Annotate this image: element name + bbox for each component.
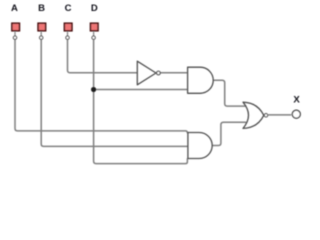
input B stub	[40, 32, 42, 36]
input A pin circle	[13, 36, 16, 39]
svg-text:D: D	[91, 3, 98, 14]
input A switch square	[12, 23, 20, 31]
wire C (input C down and right to NOT gate input)	[68, 40, 138, 73]
input D stub	[93, 32, 95, 36]
svg-text:X: X	[293, 95, 300, 106]
input D pin circle	[92, 36, 95, 39]
output X pin circle	[292, 110, 300, 118]
svg-text:A: A	[11, 3, 18, 14]
wire AND1 output down to NOR upper input	[213, 80, 246, 106]
wire D branch (junction to AND1 lower input)	[94, 89, 188, 91]
junction dot on D	[91, 87, 96, 92]
svg-text:B: B	[38, 3, 45, 14]
input D switch square	[90, 23, 98, 31]
input A stub	[14, 32, 16, 36]
wire D (input D down and right to AND2 bottom input)	[94, 40, 188, 164]
and-gate U2 (top, 2-input)	[188, 67, 214, 93]
input C pin circle	[66, 36, 69, 39]
wire A (input A down and right to AND2 top input)	[15, 40, 187, 133]
wire NOT output to AND1 upper input	[161, 72, 188, 74]
input B pin circle	[40, 36, 43, 39]
wire B (input B down and right to AND2 middle input)	[41, 40, 188, 147]
inverter U1 triangle	[137, 61, 156, 85]
svg-text:C: C	[65, 3, 72, 14]
nor-gate U4 body	[243, 102, 264, 128]
wire NOR output to pin X	[268, 114, 291, 116]
input C switch square	[64, 23, 72, 31]
wire AND2 output up to NOR lower input	[212, 122, 246, 145]
and-gate U3 (bottom, 3-input)	[188, 133, 212, 159]
input C stub	[67, 32, 69, 36]
input B switch square	[38, 23, 46, 31]
nor-gate U4 bubble	[264, 114, 267, 117]
inverter U1 bubble	[157, 71, 161, 75]
